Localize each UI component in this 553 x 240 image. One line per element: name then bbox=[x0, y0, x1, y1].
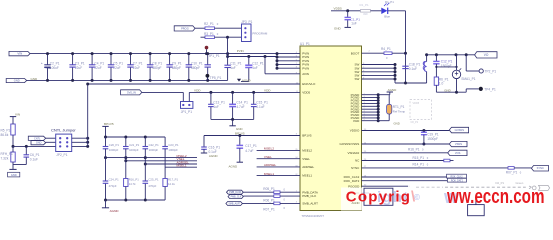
svg-text:PVIN: PVIN bbox=[237, 49, 244, 53]
svg-text:C10_P1: C10_P1 bbox=[191, 61, 203, 65]
svg-text:C11_P1: C11_P1 bbox=[230, 61, 242, 65]
svg-text:JP1_P1: JP1_P1 bbox=[181, 110, 192, 114]
resistor R4_P1 0 bbox=[381, 47, 392, 60]
LED D1_P1 Blue bbox=[371, 0, 395, 18]
wire R4 to SW node bbox=[392, 52, 407, 55]
svg-text:499: 499 bbox=[363, 12, 368, 16]
node ADRSEL at IC bbox=[257, 163, 300, 167]
svg-text:BP1V5: BP1V5 bbox=[235, 132, 245, 136]
svg-text:R1_P1: R1_P1 bbox=[360, 3, 370, 7]
svg-text:JP3_P1: JP3_P1 bbox=[241, 20, 252, 24]
wire ROK_CLK2 bbox=[362, 175, 447, 177]
net tag ROK_CLK2 bbox=[447, 174, 467, 178]
capacitor C4_P1 22uF bbox=[89, 52, 104, 82]
wire SYNC bbox=[362, 162, 509, 168]
resistor R1_P1 499 bbox=[360, 3, 371, 16]
net tag 5V0 bbox=[121, 90, 142, 95]
svg-text:470pF: 470pF bbox=[148, 184, 156, 188]
connector VO tag bbox=[475, 52, 497, 58]
jumper JP2_P1 CNTL bbox=[56, 134, 72, 157]
wire divider bottom rail bbox=[104, 199, 165, 202]
svg-text:1000pF: 1000pF bbox=[129, 148, 139, 152]
wire PVIN branch bbox=[226, 52, 277, 58]
svg-text:1000pF: 1000pF bbox=[168, 148, 178, 152]
resistor R07_P1 0 bbox=[506, 167, 532, 175]
capacitor C9_P1 680pF bbox=[166, 52, 181, 82]
net tag CNTL bbox=[28, 136, 55, 140]
capacitor C5_P1 22uF bbox=[108, 52, 123, 82]
wire divider rail A bbox=[104, 136, 165, 139]
svg-text:1.0: 1.0 bbox=[439, 82, 444, 86]
svg-text:BP1V5: BP1V5 bbox=[104, 122, 114, 126]
svg-text:VO: VO bbox=[484, 53, 489, 57]
test point TP2_P1 bbox=[466, 55, 496, 74]
svg-text:MSEL2: MSEL2 bbox=[264, 147, 274, 151]
svg-text:PMB_CLK: PMB_CLK bbox=[302, 194, 316, 198]
svg-text:C3_P1: C3_P1 bbox=[75, 61, 85, 65]
resistor R07a_P1 0 bbox=[242, 202, 300, 212]
header JP3_P1 PROGRAM bbox=[241, 20, 268, 42]
svg-text:22uF: 22uF bbox=[94, 66, 101, 70]
wire VIN rail bbox=[30, 53, 277, 55]
wire header to VIN rail bbox=[227, 37, 229, 56]
jack SMA1_P1 bbox=[452, 55, 475, 92]
svg-text:R17_P1: R17_P1 bbox=[168, 177, 179, 181]
svg-text:VDD5: VDD5 bbox=[302, 91, 310, 95]
svg-text:CNTL: CNTL bbox=[34, 137, 41, 140]
capacitor C24_P1 bbox=[103, 177, 119, 200]
svg-text:R4_P1: R4_P1 bbox=[381, 47, 391, 51]
svg-text:680pF: 680pF bbox=[172, 66, 181, 70]
svg-text:Blue: Blue bbox=[384, 14, 390, 18]
svg-text:C17_P1: C17_P1 bbox=[245, 144, 257, 148]
svg-text:MSEL2: MSEL2 bbox=[302, 149, 312, 153]
svg-text:C2_P1: C2_P1 bbox=[50, 61, 60, 65]
wire VOUT rail bbox=[427, 53, 475, 56]
wire snubber junction bbox=[435, 66, 457, 77]
wire SW bus bbox=[362, 63, 397, 83]
svg-text:C15_P1: C15_P1 bbox=[256, 101, 268, 105]
IC left pin names bbox=[302, 52, 318, 206]
capacitor C18_P1 0.1uF bbox=[402, 53, 420, 83]
wire PGND bus bbox=[362, 93, 380, 122]
svg-text:GND: GND bbox=[36, 142, 42, 145]
svg-text:C21_P1: C21_P1 bbox=[129, 143, 140, 147]
wire GND rail bbox=[27, 79, 228, 81]
svg-text:SMB_ALRT: SMB_ALRT bbox=[302, 202, 318, 206]
node MSEL2 at IC bbox=[257, 147, 300, 151]
svg-text:C4_P1: C4_P1 bbox=[94, 61, 104, 65]
wire output gnd bbox=[436, 91, 466, 94]
capacitor C1_P1 1uF bbox=[345, 11, 361, 27]
ground AGND C16 bbox=[201, 153, 219, 158]
svg-text:R15_P1: R15_P1 bbox=[413, 156, 425, 160]
svg-text:22uF: 22uF bbox=[133, 66, 140, 70]
svg-text:R14_P1: R14_P1 bbox=[413, 162, 425, 166]
ground GND VDD caps bbox=[229, 126, 243, 131]
svg-text:VSNS: VSNS bbox=[455, 142, 462, 146]
svg-text:470pF: 470pF bbox=[109, 184, 117, 188]
wire VSNADJ bbox=[362, 147, 448, 153]
ground AGND input caps bbox=[237, 78, 252, 82]
svg-text:AGND: AGND bbox=[229, 164, 239, 168]
capacitor C8_P1 680pF bbox=[147, 52, 162, 82]
svg-text:C7_P1: C7_P1 bbox=[133, 61, 143, 65]
resistor RFH_P1 7.32k bbox=[1, 146, 16, 169]
svg-text:PROG: PROG bbox=[181, 26, 189, 30]
svg-text:4.7uF: 4.7uF bbox=[236, 105, 244, 109]
svg-text:1000pF: 1000pF bbox=[149, 148, 159, 152]
wire ROK_DAT2 bbox=[362, 180, 448, 182]
svg-text:ROK_DAT2: ROK_DAT2 bbox=[451, 180, 464, 183]
svg-text:C23_P1: C23_P1 bbox=[168, 143, 179, 147]
svg-text:C6_P1: C6_P1 bbox=[30, 153, 40, 157]
svg-text:VIN: VIN bbox=[17, 52, 22, 56]
resistor R17_P1 12.1k bbox=[163, 177, 179, 200]
svg-text:C12_P1: C12_P1 bbox=[441, 60, 453, 64]
net tag PMB_CLK bbox=[228, 195, 243, 199]
svg-text:CNTL Jumper: CNTL Jumper bbox=[51, 127, 76, 132]
svg-text:C18_P1: C18_P1 bbox=[409, 63, 421, 67]
svg-text:C16_P1: C16_P1 bbox=[209, 145, 221, 149]
capacitor C12a_P1 1uF bbox=[245, 57, 264, 82]
watermark ghost blue bbox=[377, 187, 459, 207]
svg-text:D1_P1: D1_P1 bbox=[385, 0, 394, 4]
svg-text:1000pF: 1000pF bbox=[109, 148, 119, 152]
svg-text:C5_P1: C5_P1 bbox=[113, 61, 123, 65]
wire jumper tie to EN bbox=[72, 83, 90, 148]
wire AGND stub bbox=[362, 192, 370, 194]
resistor R05_P1 0 bbox=[243, 187, 300, 193]
svg-text:AGND: AGND bbox=[388, 88, 398, 92]
svg-text:1500pF: 1500pF bbox=[441, 64, 452, 68]
IC right pin names bbox=[339, 51, 360, 195]
node VSEL at IC bbox=[257, 155, 300, 159]
svg-text:PVIN: PVIN bbox=[302, 66, 309, 70]
capacitor C15_P1 0.1uF bbox=[251, 92, 268, 119]
connector VIN (J1) bbox=[9, 51, 30, 55]
svg-text:VDD5: VDD5 bbox=[413, 102, 420, 105]
header J2_P1 box bbox=[468, 200, 485, 216]
svg-text:ww.eccn.com: ww.eccn.com bbox=[446, 185, 544, 208]
net tag VSNS bbox=[449, 141, 467, 146]
svg-text:C14_P1: C14_P1 bbox=[236, 101, 248, 105]
svg-text:12.1k: 12.1k bbox=[168, 182, 175, 186]
svg-text:TPS544C20RVFT: TPS544C20RVFT bbox=[302, 214, 325, 218]
svg-text:EN/UVLO: EN/UVLO bbox=[302, 82, 316, 86]
wire divider legs bbox=[106, 149, 166, 181]
test point TP4_P1 bbox=[466, 87, 496, 92]
svg-text:U1_P1: U1_P1 bbox=[300, 42, 310, 46]
capacitor C6_P1 0.1uF bbox=[13, 146, 40, 164]
resistor R5_P1 86.6k bbox=[1, 122, 16, 146]
svg-text:R16_P1: R16_P1 bbox=[129, 177, 140, 181]
svg-text:C8_P1: C8_P1 bbox=[152, 61, 162, 65]
svg-text:VIN: VIN bbox=[15, 113, 20, 117]
svg-text:VDD: VDD bbox=[264, 88, 271, 92]
node MSEL1 wire bbox=[165, 164, 197, 168]
capacitor C19_P1 1500pF bbox=[421, 131, 439, 146]
svg-text:BP1V5: BP1V5 bbox=[302, 134, 312, 138]
svg-text:PROGRAM: PROGRAM bbox=[252, 31, 268, 35]
svg-text:VOS: VOS bbox=[455, 151, 461, 155]
svg-text:1500pF: 1500pF bbox=[427, 137, 438, 141]
svg-text:14.7k: 14.7k bbox=[129, 182, 136, 186]
svg-text:680pF: 680pF bbox=[191, 66, 200, 70]
net tag SMB_ALRT bbox=[226, 202, 243, 206]
svg-text:R3_P1: R3_P1 bbox=[204, 32, 214, 36]
svg-text:AGND: AGND bbox=[242, 78, 252, 82]
capacitor C16_P1 0.1uF bbox=[201, 136, 220, 155]
net tag GOSNS bbox=[449, 127, 468, 133]
svg-text:VDD5: VDD5 bbox=[334, 6, 343, 10]
wire BP1V5 rail bbox=[204, 132, 300, 137]
svg-text:R07_P1: R07_P1 bbox=[263, 207, 275, 211]
svg-text:Ref Temp: Ref Temp bbox=[393, 109, 406, 113]
svg-text:86.6k: 86.6k bbox=[1, 133, 9, 137]
svg-text:1uF: 1uF bbox=[230, 66, 236, 70]
net tag VOS bbox=[448, 150, 467, 155]
svg-text:22uF: 22uF bbox=[75, 66, 82, 70]
svg-text:C19_P1: C19_P1 bbox=[427, 132, 439, 136]
resistor R2_P1 0 bbox=[204, 22, 219, 30]
svg-text:4.7uF: 4.7uF bbox=[245, 149, 253, 153]
svg-text:MSEL1: MSEL1 bbox=[177, 164, 187, 168]
svg-text:R2_P1: R2_P1 bbox=[204, 22, 214, 26]
wire BOOT bbox=[362, 51, 385, 54]
resistor R15_P1 0 bbox=[362, 156, 454, 162]
net tag PROG bbox=[174, 26, 195, 31]
resistor R06_P1 0 bbox=[243, 195, 300, 203]
net tag ROK_DAT2 bbox=[447, 178, 466, 182]
svg-text:100uF: 100uF bbox=[50, 66, 59, 70]
svg-text:VSEL: VSEL bbox=[264, 155, 272, 159]
wire SW to inductor bbox=[395, 82, 427, 85]
capacitor C23_P1 bbox=[162, 137, 179, 152]
test point TP5_P1 bbox=[206, 74, 222, 81]
svg-text:22uF: 22uF bbox=[113, 66, 120, 70]
resistor R3_P1 0 bbox=[204, 32, 219, 39]
wire R3 row bbox=[201, 36, 242, 39]
svg-text:C8_P1: C8_P1 bbox=[411, 121, 419, 124]
svg-text:R16_P1: R16_P1 bbox=[408, 147, 420, 151]
watermark Copyright bbox=[346, 189, 416, 206]
node VSEL wire bbox=[124, 157, 197, 162]
node ADRSEL wire bbox=[144, 160, 197, 165]
net tag PMB_DATA bbox=[227, 190, 244, 194]
power flag VIN small bbox=[10, 113, 20, 122]
svg-text:C22_P1: C22_P1 bbox=[149, 143, 160, 147]
wire dashed PGOOD dnp bbox=[416, 181, 526, 187]
node MSEL1 at IC bbox=[257, 172, 300, 176]
svg-text:R05_P1: R05_P1 bbox=[263, 187, 275, 191]
wire tag to R2 bbox=[195, 27, 205, 29]
svg-text:1uF: 1uF bbox=[252, 66, 258, 70]
jumper JP1_P1 bbox=[181, 102, 193, 115]
svg-text:GND: GND bbox=[394, 122, 400, 126]
svg-text:R5_P1: R5_P1 bbox=[1, 129, 11, 133]
svg-text:AGND: AGND bbox=[110, 209, 120, 213]
capacitor C7_P1 22uF bbox=[127, 52, 142, 82]
inductor L1_P1 bbox=[423, 53, 428, 83]
svg-text:TP5_P1: TP5_P1 bbox=[210, 76, 222, 80]
ground AGND divider bbox=[102, 200, 119, 213]
note dashed box bbox=[410, 100, 432, 124]
svg-text:VSNADJ: VSNADJ bbox=[347, 151, 359, 155]
svg-text:GND: GND bbox=[334, 26, 342, 30]
thermistor RT1_P1 bbox=[378, 95, 405, 126]
svg-text:C13_P1: C13_P1 bbox=[213, 101, 225, 105]
svg-text:TP1_P1: TP1_P1 bbox=[208, 54, 220, 58]
svg-text:1uF: 1uF bbox=[351, 22, 357, 26]
svg-text:SMB_ALRT: SMB_ALRT bbox=[228, 202, 241, 205]
svg-text:ADRSEL: ADRSEL bbox=[302, 165, 314, 169]
label CNTL Jumper bbox=[51, 127, 76, 132]
wire AVIN bbox=[264, 55, 301, 74]
svg-text:JP2_P1: JP2_P1 bbox=[56, 153, 67, 157]
svg-text:MSEL1: MSEL1 bbox=[302, 174, 312, 178]
svg-text:TP2_P1: TP2_P1 bbox=[485, 69, 497, 73]
capacitor C3_P1 22uF bbox=[69, 52, 84, 82]
svg-text:Copyrig: Copyrig bbox=[346, 189, 411, 206]
svg-text:VDD: VDD bbox=[194, 88, 201, 92]
svg-text:C12_P1: C12_P1 bbox=[252, 61, 264, 65]
capacitor C19b_P1 1500pF bbox=[433, 55, 452, 68]
capacitor C11_P1 1uF bbox=[224, 57, 241, 81]
pin numbers left bbox=[296, 52, 299, 93]
svg-text:GND: GND bbox=[444, 88, 450, 92]
svg-text:GND: GND bbox=[14, 79, 20, 83]
svg-text:C20_P1: C20_P1 bbox=[109, 143, 120, 147]
svg-text:BOOT: BOOT bbox=[351, 51, 360, 55]
capacitor C22_P1 bbox=[143, 137, 160, 152]
wire tag to JP1 bbox=[142, 92, 184, 101]
capacitor C2_P1 100uF bbox=[41, 52, 60, 82]
svg-text:7.32k: 7.32k bbox=[1, 156, 9, 160]
svg-text:GND: GND bbox=[11, 173, 17, 177]
svg-text:R07_P1: R07_P1 bbox=[506, 170, 518, 174]
net tag SYNC bbox=[531, 166, 548, 172]
svg-text:SMA1_P1: SMA1_P1 bbox=[461, 77, 476, 81]
svg-text:1uF: 1uF bbox=[213, 105, 219, 109]
svg-text:VDDIO: VDDIO bbox=[350, 129, 360, 133]
wire EN/UVLO bbox=[88, 83, 300, 85]
resistor R6_P1 1.0 bbox=[434, 77, 449, 92]
svg-text:MSEL1: MSEL1 bbox=[264, 172, 274, 176]
svg-text:5V0_IN: 5V0_IN bbox=[127, 90, 136, 94]
capacitor C17_P1 4.7uF bbox=[237, 136, 258, 163]
svg-text:VSEL: VSEL bbox=[302, 157, 310, 161]
svg-text:GND: GND bbox=[236, 127, 244, 131]
ground GND output bbox=[444, 88, 450, 92]
svg-text:C24_P1: C24_P1 bbox=[109, 177, 120, 181]
capacitor C25_P1 bbox=[143, 177, 159, 200]
wire VDD5 to R1 bbox=[331, 9, 361, 12]
node VDD labels bbox=[194, 88, 271, 92]
capacitor C21_P1 bbox=[123, 137, 140, 152]
header J4_P1 box bbox=[352, 188, 393, 205]
svg-text:SYNC: SYNC bbox=[537, 166, 544, 170]
capacitor C14_P1 4.7uF bbox=[229, 92, 248, 119]
svg-text:RFH_P1: RFH_P1 bbox=[1, 152, 13, 156]
node MSEL2 wire bbox=[104, 154, 197, 159]
svg-text:R06_P1: R06_P1 bbox=[263, 199, 275, 203]
svg-text:0.1uF: 0.1uF bbox=[409, 67, 417, 71]
ground GND C1 bbox=[334, 26, 351, 30]
capacitor C10_P1 680pF bbox=[186, 52, 203, 82]
svg-text:TP4_P1: TP4_P1 bbox=[484, 87, 496, 91]
capacitor C20_P1 bbox=[103, 137, 120, 152]
svg-text:PMB_CLK: PMB_CLK bbox=[231, 196, 242, 198]
wire VDDIO bbox=[362, 129, 450, 132]
svg-text:SW: SW bbox=[354, 77, 359, 81]
svg-text:PAD: PAD bbox=[353, 119, 360, 123]
svg-text:ADRSEL: ADRSEL bbox=[264, 163, 277, 167]
wire VDD rail bbox=[189, 91, 300, 102]
test point TP1_P1 bbox=[205, 46, 220, 58]
wire LED to BOOT node bbox=[388, 11, 406, 53]
wire PGOOD bbox=[362, 185, 411, 187]
watermark eccn bbox=[446, 185, 544, 208]
capacitor C13_P1 1uF bbox=[208, 92, 225, 119]
connector GND (J2) bbox=[6, 79, 27, 83]
wire VDD caps gnd tie bbox=[211, 118, 254, 126]
svg-text:PMB_DATA: PMB_DATA bbox=[229, 191, 242, 194]
svg-text:0.1uF: 0.1uF bbox=[256, 105, 264, 109]
node GND label bbox=[31, 77, 39, 81]
wire GOSNS sense bbox=[362, 142, 450, 144]
svg-text:C25_P1: C25_P1 bbox=[148, 177, 159, 181]
node EN divider junction bbox=[12, 145, 15, 148]
capacitor C_P1 bbox=[205, 52, 211, 82]
svg-text:AVIN: AVIN bbox=[302, 72, 309, 76]
wire PVIN bus to IC bbox=[276, 52, 301, 70]
LED D2_P1 dnp bbox=[529, 185, 550, 190]
net tag GND small bbox=[31, 141, 56, 145]
svg-text:0.1uF: 0.1uF bbox=[30, 158, 38, 162]
wire divider to jumper bbox=[13, 145, 56, 148]
svg-text:GOSNS: GOSNS bbox=[455, 128, 465, 132]
svg-text:+: + bbox=[41, 61, 43, 65]
resistor R16_P1 14.7k bbox=[124, 177, 140, 200]
ground AGND PGND bus bbox=[378, 88, 397, 95]
IC U1_P1 TPS544C20 body bbox=[300, 42, 362, 218]
svg-text:680pF: 680pF bbox=[152, 66, 161, 70]
power flag VDD5 bbox=[334, 6, 343, 10]
svg-text:GOSNS/VSNS: GOSNS/VSNS bbox=[339, 142, 359, 146]
ground GND divider bbox=[8, 169, 20, 177]
wire R2 to header bbox=[215, 27, 242, 29]
ground AGND C17 bbox=[229, 162, 244, 168]
node PVIN label bbox=[237, 49, 244, 53]
watermark white wash bbox=[341, 184, 553, 211]
svg-text:SYNC: SYNC bbox=[351, 166, 360, 170]
svg-text:C9_P1: C9_P1 bbox=[172, 61, 182, 65]
power flag BP1V5 left bbox=[102, 122, 114, 137]
svg-text:ROK_DAT2: ROK_DAT2 bbox=[344, 179, 360, 183]
svg-text:AGND: AGND bbox=[209, 154, 219, 158]
